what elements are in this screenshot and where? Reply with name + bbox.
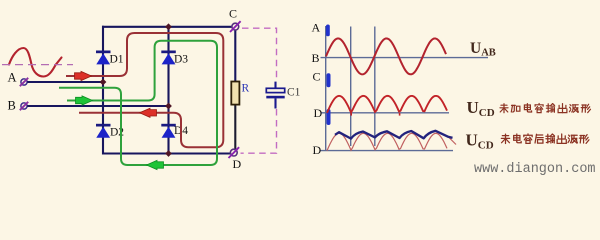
junction: B wire to inner column <box>165 103 172 110</box>
bridge bottom rail wire <box>102 152 231 154</box>
tick at A <box>326 25 330 37</box>
node B terminal <box>20 102 28 110</box>
row2 rectified waveform <box>327 96 447 113</box>
junction: A wire to left rail <box>100 79 107 86</box>
bridge inner column wire <box>167 27 169 154</box>
vertical reference line 1 <box>350 27 352 147</box>
svg-text:D: D <box>314 106 323 120</box>
capacitor C1 top lead <box>274 82 276 89</box>
node A terminal <box>20 78 28 86</box>
junction: inner column to top rail <box>165 23 172 30</box>
node C <box>230 21 241 32</box>
wire resistor to node D <box>234 105 236 150</box>
row1 axis (U_AB) <box>321 57 489 59</box>
diode D3 <box>161 51 176 65</box>
svg-text:A: A <box>8 71 17 85</box>
svg-text:www.diangon.com: www.diangon.com <box>474 162 596 177</box>
green current path (negative half-cycle loop) <box>59 41 217 165</box>
svg-text:D3: D3 <box>174 53 188 65</box>
label: output waveform after capacitor (Chinese) <box>501 134 589 144</box>
svg-text:D2: D2 <box>110 126 124 138</box>
AC source sine wave <box>9 48 62 77</box>
wire A to bridge <box>27 81 103 83</box>
source axis dashed line <box>2 64 73 66</box>
svg-text:C1: C1 <box>287 87 301 99</box>
bridge top rail wire <box>102 26 232 28</box>
bridge left rail wire <box>102 26 104 155</box>
waveform panel y-axis <box>325 26 327 151</box>
tick at D <box>327 109 331 125</box>
wire B to bridge inner column <box>27 105 168 107</box>
diode D2 <box>96 124 111 138</box>
svg-text:R: R <box>242 83 250 95</box>
tick at C <box>327 73 331 87</box>
svg-text:C: C <box>229 7 237 21</box>
green arrow on bottom path <box>147 160 164 169</box>
red current path (positive half-cycle loop) <box>66 33 223 147</box>
red cusp marks row2 <box>350 113 352 116</box>
node D <box>229 147 240 158</box>
wire node C to resistor <box>234 30 236 82</box>
diode D4 <box>161 124 176 138</box>
red tail at end of row3 <box>448 137 456 145</box>
junction: inner column to bottom rail <box>165 150 172 157</box>
svg-text:C: C <box>313 70 321 84</box>
svg-text:A: A <box>312 21 321 35</box>
svg-text:D: D <box>233 157 242 171</box>
svg-text:B: B <box>8 99 16 113</box>
svg-text:B: B <box>312 51 320 65</box>
resistor R <box>231 82 239 105</box>
capacitor C1 bottom lead <box>274 98 276 108</box>
row3 filtered output waveform (navy) <box>335 131 453 139</box>
green arrow near B <box>76 96 93 105</box>
capacitor C1 top plate <box>266 88 284 92</box>
svg-text:D1: D1 <box>110 53 124 65</box>
svg-text:D: D <box>313 143 322 157</box>
red arrow on return path <box>140 108 157 117</box>
row3 axis (U_CD with capacitor) <box>321 150 454 152</box>
label: output waveform without capacitor (Chinese) <box>500 104 591 113</box>
red arrow on wire A <box>75 71 92 80</box>
diode D1 <box>96 51 111 65</box>
dashed connection C1 to node D <box>241 109 277 153</box>
row1 sine waveform U_AB <box>326 38 446 74</box>
dashed connection node C to C1 <box>242 28 277 81</box>
row3 rectified waveform (light red) <box>327 133 447 150</box>
vertical reference line 2 <box>374 27 376 147</box>
row2 axis (U_CD no capacitor) <box>321 112 450 114</box>
capacitor C1 bottom plate <box>266 96 284 99</box>
